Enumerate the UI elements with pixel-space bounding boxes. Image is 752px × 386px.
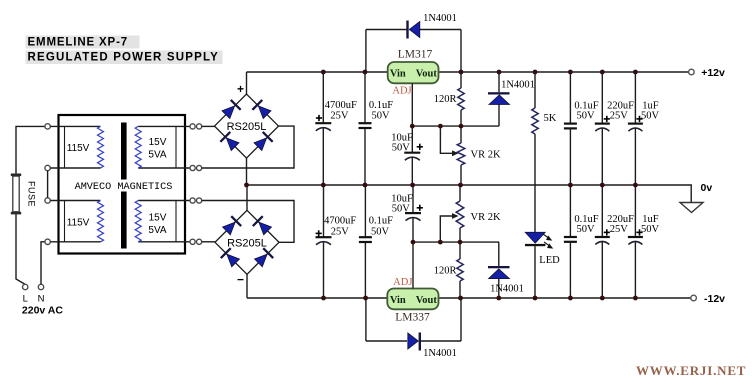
svg-text:50V: 50V [371, 226, 390, 237]
svg-text:EMMELINE XP-7: EMMELINE XP-7 [28, 36, 129, 48]
wire bridge2 minus to -12 raw rail [246, 274, 248, 298]
jumper wire between primaries [47, 171, 49, 198]
svg-text:-12v: -12v [704, 293, 725, 305]
svg-text:N: N [38, 294, 45, 305]
svg-text:WWW.ERJI.NET: WWW.ERJI.NET [636, 363, 746, 378]
svg-text:+: + [237, 82, 244, 96]
capacitor 0.1uF 50V top branch [364, 72, 366, 123]
wire ADJ node horizontal bottom [413, 241, 499, 243]
svg-text:25V: 25V [610, 110, 629, 121]
resistor 5K [534, 72, 536, 108]
ground symbol [680, 203, 703, 213]
svg-text:15V: 15V [149, 137, 167, 148]
wire fuse to L terminal [16, 214, 25, 284]
wire LM317 ADJ pin down [411, 83, 413, 152]
wire secondary s2b to bridge2 AC left [202, 241, 215, 243]
svg-text:Vin: Vin [390, 295, 406, 306]
wire +12v rail [247, 71, 689, 73]
svg-text:5K: 5K [544, 113, 557, 124]
terminal primary 1b [45, 165, 50, 170]
svg-text:−: − [237, 273, 244, 287]
terminal secondary s2b [190, 239, 195, 244]
terminal primary 2b [45, 239, 50, 244]
svg-text:LED: LED [539, 255, 560, 266]
capacitor 0.1uF 50V output bottom [569, 185, 571, 237]
svg-text:Vout: Vout [416, 68, 438, 79]
svg-text:25V: 25V [610, 224, 629, 235]
svg-text:AMVECO MAGNETICS: AMVECO MAGNETICS [75, 182, 173, 193]
terminal primary 1a [45, 124, 50, 129]
wire bridge1 minus to ground rail [246, 158, 248, 185]
bridge rectifier BR1 diamond [215, 94, 279, 158]
svg-text:L: L [23, 294, 28, 305]
primary winding P1 115V [50, 125, 100, 127]
wire ADJ node horizontal top [412, 125, 499, 127]
capacitor 1uF 50V output top [634, 72, 636, 124]
potentiometer VR2 2K bottom [459, 185, 461, 201]
wire secondary s2a to bridge2 AC right [202, 201, 294, 243]
terminal L [23, 284, 28, 289]
svg-text:50V: 50V [576, 224, 595, 235]
svg-text:220v AC: 220v AC [22, 305, 63, 317]
wire bridge2 plus to ground rail [246, 185, 248, 210]
svg-text:115V: 115V [67, 218, 90, 229]
transformer T1 box [59, 115, 186, 254]
svg-text:0v: 0v [701, 182, 713, 194]
svg-text:120R: 120R [434, 266, 457, 277]
bridge BR2 diode top-right [252, 215, 273, 236]
LED indicator [525, 232, 545, 243]
wire secondary s1a to bridge1 AC left [202, 125, 215, 127]
svg-text:1N4001: 1N4001 [423, 348, 457, 359]
svg-text:5VA: 5VA [148, 225, 166, 236]
svg-text:ADJ: ADJ [392, 86, 411, 97]
bridge BR1 diode top-left [221, 99, 242, 120]
svg-text:Vout: Vout [416, 295, 438, 306]
terminal secondary s1a [190, 124, 195, 129]
svg-text:1N4001: 1N4001 [490, 284, 524, 295]
svg-text:25V: 25V [331, 226, 350, 237]
capacitor 10uF 50V bottom (ADJ) [412, 185, 414, 213]
svg-text:50V: 50V [392, 203, 411, 214]
svg-text:25V: 25V [330, 110, 349, 121]
diode D4 1N4001 bottom vertical [488, 266, 510, 268]
bridge BR1 diode bottom-right [253, 131, 274, 152]
capacitor 0.1uF 50V bottom branch [364, 185, 366, 237]
svg-text:RS205L: RS205L [227, 121, 267, 133]
wire secondary s1b to bridge1 AC right [202, 126, 294, 168]
svg-text:+12v: +12v [701, 67, 725, 79]
svg-text:VR 2K: VR 2K [471, 212, 501, 223]
svg-text:15V: 15V [149, 213, 167, 224]
transformer core bar lower [121, 192, 127, 249]
svg-text:0.1uF: 0.1uF [369, 216, 393, 227]
wire bridge1 plus to +12 raw rail [246, 72, 248, 94]
wire -12v rail [247, 297, 691, 299]
terminal +12v output [689, 69, 695, 75]
svg-text:50V: 50V [641, 224, 660, 235]
terminal primary 2a [45, 198, 50, 203]
bridge BR1 diode bottom-left [220, 131, 241, 152]
svg-text:1N4001: 1N4001 [501, 80, 535, 91]
svg-text:LM317: LM317 [398, 49, 433, 61]
bridge BR2 diode top-left [221, 215, 242, 236]
bridge BR2 diode bottom-right [253, 247, 274, 268]
diode D3 1N4001 bottom horizontal [419, 333, 421, 351]
svg-text:1N4001: 1N4001 [423, 13, 457, 24]
svg-text:4700uF: 4700uF [324, 216, 356, 227]
capacitor 4700uF 25V bottom branch [323, 185, 325, 237]
svg-text:ADJ: ADJ [393, 277, 412, 288]
svg-text:LM337: LM337 [395, 312, 430, 324]
potentiometer VR1 2K top [457, 143, 465, 165]
capacitor 4700uF 25V top branch [322, 72, 324, 123]
bridge rectifier BR2 diamond [215, 210, 279, 274]
capacitor 220uF 25V output top [601, 72, 603, 124]
svg-text:VR 2K: VR 2K [471, 150, 501, 161]
op-amp U1 LM317 box [388, 62, 439, 83]
wire bottom protection diode loop [366, 340, 407, 342]
resistor 120R bottom [459, 242, 461, 259]
wire LM337 ADJ pin up [412, 242, 414, 288]
svg-text:REGULATED POWER SUPPLY: REGULATED POWER SUPPLY [28, 51, 219, 63]
svg-text:RS205L: RS205L [227, 237, 267, 249]
svg-text:FUSE: FUSE [27, 181, 37, 207]
wire top protection diode loop [366, 29, 407, 31]
wire VR1 wiper top [440, 126, 452, 153]
svg-text:5VA: 5VA [148, 150, 166, 161]
svg-text:50V: 50V [371, 110, 390, 121]
svg-text:120R: 120R [434, 94, 457, 105]
capacitor 0.1uF 50V output top [569, 72, 571, 124]
op-amp U2 LM337 box [387, 289, 438, 310]
primary winding P2 115V [50, 200, 100, 202]
secondary winding S2 15V 5VA [138, 200, 190, 202]
bridge BR1 diode top-right [252, 99, 273, 120]
terminal secondary s2a [190, 198, 195, 203]
transformer core bar upper [121, 123, 127, 180]
wire VR2 wiper bottom [440, 216, 452, 242]
diode D1 1N4001 top horizontal [406, 21, 408, 39]
junction dots [321, 70, 326, 75]
capacitor 10uF 50V top (ADJ) [404, 152, 420, 154]
resistor 120R top [460, 72, 462, 88]
capacitor 220uF 25V output bottom [601, 185, 603, 237]
fuse F1 [11, 174, 21, 177]
svg-text:50V: 50V [392, 142, 411, 153]
wire 0v ground rail [247, 185, 692, 202]
diode D2 1N4001 top vertical [488, 92, 510, 94]
terminal -12v output [691, 295, 697, 301]
wire 1N4001 vertical top branch [498, 72, 500, 92]
capacitor 1uF 50V output bottom [634, 185, 636, 237]
wire 1N4001 vertical bottom branch [498, 242, 500, 266]
svg-text:50V: 50V [576, 110, 595, 121]
secondary winding S1 15V 5VA [138, 125, 190, 127]
svg-text:Vin: Vin [390, 68, 406, 79]
bridge BR2 diode bottom-left [220, 247, 241, 268]
LED emission arrows [543, 234, 550, 239]
title text [26, 36, 140, 49]
wire L input to fuse [16, 126, 45, 173]
terminal N [38, 284, 43, 289]
terminal secondary s1b [190, 165, 195, 170]
wire N terminal to transformer [41, 242, 45, 284]
svg-text:50V: 50V [641, 110, 660, 121]
svg-text:115V: 115V [67, 143, 90, 154]
